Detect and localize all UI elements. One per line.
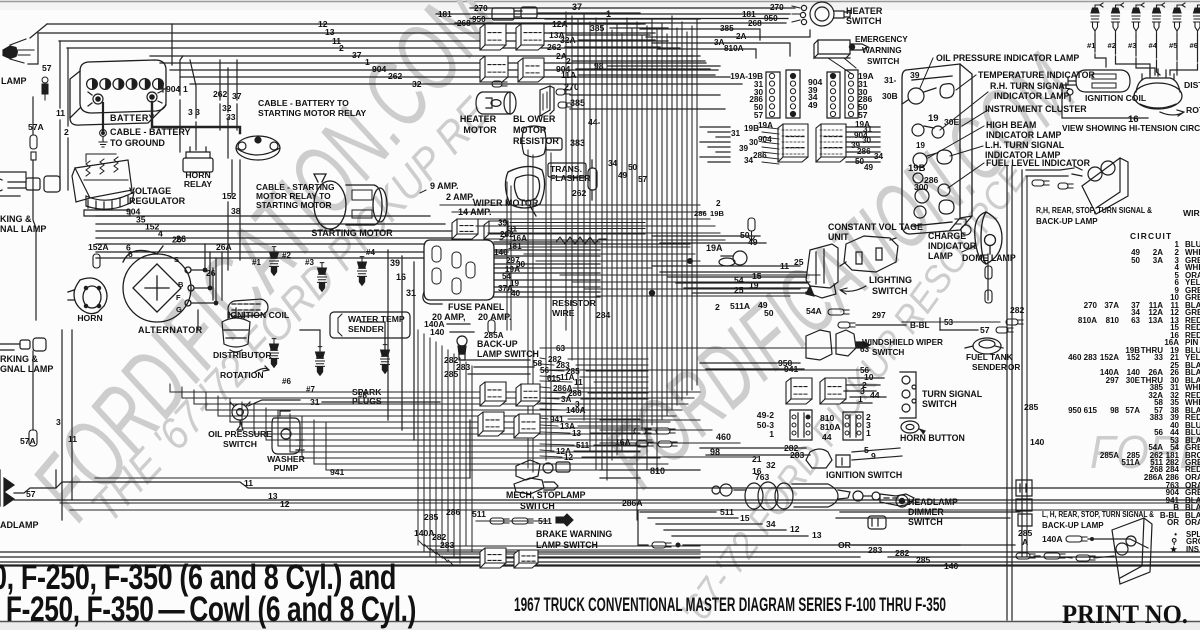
svg-text:CONSTANT VOL TAGE: CONSTANT VOL TAGE [828, 222, 923, 232]
spark plug #4 (engine row) [1153, 3, 1165, 35]
svg-text:HEADLAMP: HEADLAMP [908, 497, 958, 507]
svg-text:31-: 31- [884, 75, 897, 85]
starting motor [314, 174, 387, 229]
wire (top bus y=77) [180, 76, 730, 78]
spark plug #6 (left col) [270, 339, 279, 368]
wire (top bus y=41) [59, 40, 668, 42]
wire corner y464 [313, 420, 315, 464]
wire trunk x572 [571, 16, 573, 360]
svg-text:49: 49 [864, 163, 874, 172]
relay connector small top B [521, 7, 537, 18]
wire 6 from regulator [96, 251, 508, 253]
oil pressure switch [230, 402, 250, 430]
wire multipin r y132 [846, 131, 880, 133]
svg-text:#6: #6 [1190, 41, 1198, 50]
relay connector small top A [492, 8, 522, 20]
wire 181 fuse panel [494, 249, 600, 251]
svg-text:3A: 3A [561, 395, 572, 404]
svg-text:INDICATOR: INDICATOR [928, 241, 977, 251]
svg-text:DISTRIB: DISTRIB [1184, 80, 1200, 90]
svg-text:13A: 13A [1148, 316, 1163, 325]
svg-text:63: 63 [1131, 316, 1140, 325]
svg-text:BACK-UP LAMP: BACK-UP LAMP [1036, 217, 1098, 226]
wire 11A fanA cont [580, 376, 648, 378]
svg-text:A: A [1022, 537, 1028, 547]
svg-text:2A: 2A [736, 32, 747, 41]
svg-text:19: 19 [916, 141, 925, 150]
svg-text:286: 286 [446, 507, 461, 517]
svg-text:12: 12 [790, 524, 800, 534]
svg-text:SWITCH: SWITCH [922, 399, 957, 409]
spark plug #6 (engine row) [1194, 3, 1200, 35]
svg-text:511A: 511A [1121, 458, 1140, 467]
svg-text:IGNITION COIL: IGNITION COIL [228, 310, 289, 320]
svg-text:4: 4 [158, 229, 163, 239]
wire 56 [545, 369, 870, 371]
wire 286 fanA cont [588, 392, 648, 394]
svg-text:SWITCH: SWITCH [908, 517, 943, 527]
fan join to key cylinder [840, 511, 1020, 513]
svg-text:#7: #7 [306, 385, 315, 394]
wire multipin l y142 [700, 141, 730, 143]
wire 13A fanB cont [578, 425, 640, 427]
wire trunk x578 [577, 20, 579, 390]
wire lower-left y446 [278, 445, 646, 447]
wire 140A [447, 323, 470, 325]
R.H. rear lamp assembly [1072, 158, 1128, 214]
key plate pins y417 [792, 415, 796, 419]
wire 297 fuse panel [494, 263, 600, 265]
svg-text:VIEW SHOWING HI-TENSION CIRCUI: VIEW SHOWING HI-TENSION CIRCUIT FOR [1062, 123, 1200, 133]
svg-text:#3: #3 [1128, 41, 1136, 50]
svg-text:2: 2 [716, 199, 721, 208]
wire trunk x692 [691, 26, 693, 390]
svg-text:BRAKE WARNING: BRAKE WARNING [536, 529, 612, 539]
wire 286A route [638, 510, 648, 545]
plug lead wire #4 [1156, 35, 1158, 58]
wire lower mid x418 [417, 330, 419, 545]
wire mid y226 [476, 225, 715, 227]
wire multipin r y142 [846, 141, 880, 143]
wire lower mid x466 [465, 362, 467, 545]
wire (top bus y=24) [47, 23, 640, 25]
wire curve x424 [424, 544, 700, 550]
alternator [123, 246, 194, 322]
wire multipin r y162 [846, 161, 880, 163]
wire 268 hs [455, 22, 786, 24]
wire fuel drop [939, 318, 941, 330]
headlamp dimmer switch [896, 495, 908, 507]
svg-text:BACK-UP: BACK-UP [477, 339, 518, 349]
wire trunk x632 [631, 28, 633, 440]
svg-text:32A: 32A [560, 35, 576, 45]
svg-text:RELAY: RELAY [184, 179, 213, 189]
svg-text:37: 37 [572, 2, 582, 12]
battery terminal negative [88, 92, 103, 106]
pin circles row 3 colB [830, 96, 835, 101]
wire 16 coil [1062, 85, 1148, 118]
svg-text:152: 152 [1127, 353, 1141, 362]
multipin connector left [778, 124, 808, 162]
svg-text:MECH, STOPLAMP: MECH, STOPLAMP [506, 490, 586, 500]
wire extra mid b [600, 429, 712, 431]
wire trunk x622 [621, 34, 623, 450]
svg-text:16: 16 [396, 272, 406, 282]
svg-text:54A: 54A [806, 306, 822, 316]
svg-text:12A: 12A [552, 19, 568, 29]
svg-text:19A: 19A [706, 243, 723, 253]
svg-text:286A: 286A [622, 498, 643, 508]
junction dot trunk [649, 290, 655, 296]
wires lh row [1034, 555, 1040, 557]
svg-text:140: 140 [1030, 437, 1045, 447]
back-up lamp switch [457, 336, 467, 360]
wire multipin r y157 [846, 156, 880, 158]
svg-text:152: 152 [222, 191, 237, 201]
wire corner y392 [169, 384, 171, 392]
wire 30 fuse panel [494, 267, 600, 269]
svg-text:WINDSHIELD WIPER: WINDSHIELD WIPER [862, 338, 943, 347]
svg-text:810: 810 [1106, 316, 1120, 325]
svg-text:CABLE - BATTERY: CABLE - BATTERY [110, 127, 191, 137]
svg-text:FLASHER: FLASHER [550, 173, 591, 183]
wire 50 49 mid [652, 235, 760, 237]
wire corner y452 [289, 414, 291, 452]
wire mid y275 [560, 274, 820, 276]
svg-text:INDICATOR LAMP: INDICATOR LAMP [986, 130, 1062, 140]
wire multipin l2 y147 [762, 147, 779, 149]
connector below key [868, 516, 886, 529]
wire 98 mid [600, 456, 758, 458]
svg-text:140: 140 [430, 327, 445, 337]
pin circles row 2 colB [830, 89, 835, 94]
wire 57A lower vertical [32, 351, 34, 430]
svg-text:HORN BUTTON: HORN BUTTON [900, 433, 965, 443]
wire lower mid x472 [471, 366, 473, 551]
voltage regulator [72, 160, 134, 216]
svg-text:★: ★ [1170, 545, 1178, 554]
svg-text:286A: 286A [1144, 473, 1163, 482]
wire 181 hs [436, 13, 790, 15]
svg-text:904: 904 [372, 64, 387, 74]
svg-text:50: 50 [764, 308, 774, 318]
svg-text:NAL LAMP: NAL LAMP [0, 224, 46, 234]
cluster bottom sockets [914, 200, 954, 218]
top scan band [0, 0, 1200, 10]
wire trunk x672 [671, 16, 673, 410]
cluster lamp socket 3 [912, 124, 944, 138]
battery terminal positive [147, 86, 166, 103]
svg-text:1: 1 [365, 57, 370, 67]
spark plug #3 (engine row) [1132, 3, 1144, 35]
wire 3A fanA cont [581, 398, 648, 400]
wire lower-left y428 [242, 427, 664, 429]
wire 13 fanB cont [590, 432, 640, 434]
wire 1 top [545, 18, 700, 20]
fuse panel outline [423, 240, 494, 304]
pin circles row 5 colA [769, 111, 774, 116]
wire 810A hs [658, 49, 756, 58]
wire lower mid x424 [423, 334, 425, 551]
svg-text:181: 181 [742, 10, 756, 19]
wire (top bus y=48) [67, 47, 680, 49]
wire multipin l y162 [708, 161, 730, 163]
turn signal switch [900, 372, 916, 418]
svg-text:IGNITION SWITCH: IGNITION SWITCH [826, 470, 902, 480]
svg-text:REGULATOR: REGULATOR [129, 196, 186, 206]
wire curve x436 [436, 552, 700, 558]
lh inline connectors row [1016, 553, 1035, 559]
svg-text:34: 34 [744, 156, 754, 165]
wire trunk x602 [601, 26, 603, 470]
svg-text:57: 57 [858, 110, 868, 120]
wire 16A fuse panel [494, 241, 600, 243]
pin circles row 0 colB [830, 73, 835, 78]
svg-text:383: 383 [1150, 413, 1164, 422]
svg-text:140A: 140A [566, 406, 586, 415]
wire 35 from regulator [96, 223, 445, 225]
svg-text:283: 283 [868, 545, 883, 555]
wire trunk x687 [686, 32, 688, 395]
lh connectors column [1016, 480, 1032, 526]
svg-text:L, H, REAR, STOP, TURN SIGNAL: L, H, REAR, STOP, TURN SIGNAL & [1042, 510, 1154, 519]
svg-text:1967 TRUCK CONVENTIONAL MASTER: 1967 TRUCK CONVENTIONAL MASTER DIAGRAM S… [514, 595, 946, 616]
svg-text:HORN: HORN [77, 313, 102, 323]
svg-text:270: 270 [1084, 301, 1098, 310]
svg-text:LAMP SWITCH: LAMP SWITCH [477, 349, 539, 359]
svg-text:SWITCH: SWITCH [872, 286, 908, 296]
pin circles row 2 colA [769, 89, 774, 94]
spark plug #3 [318, 263, 327, 292]
wire multipin l2 y132 [762, 132, 779, 134]
svg-text:15: 15 [740, 513, 750, 523]
svg-text:OR: OR [1167, 518, 1179, 527]
wire long bottom bus 1 [0, 551, 1200, 553]
svg-text:HEATER: HEATER [846, 6, 883, 16]
wire corner y428 [241, 402, 243, 428]
wire 511 fanB cont [594, 444, 640, 446]
svg-text:1: 1 [866, 428, 871, 438]
key plate pins y433 [792, 431, 796, 435]
wire trunk x642 [641, 36, 643, 430]
cluster lamp socket 2 (temp) [940, 84, 954, 98]
wire steps to lighting switch [652, 265, 800, 267]
svg-text:57A: 57A [1125, 406, 1140, 415]
svg-text:STARTING MOTOR RELAY: STARTING MOTOR RELAY [258, 108, 366, 118]
battery cell cap 4 [126, 79, 137, 90]
wire 4 from regulator [96, 237, 468, 239]
svg-text:HEATER: HEATER [460, 114, 497, 124]
svg-text:57: 57 [42, 63, 52, 73]
svg-text:G: G [176, 305, 182, 314]
washer pump [272, 411, 304, 454]
wire multipin r y152 [846, 151, 880, 153]
bottom scan band [0, 622, 1200, 630]
wire 40 fuse panel [494, 296, 600, 298]
battery cell cap 3 [113, 79, 124, 90]
wire mid y268 [548, 267, 652, 269]
wire curve x448 [448, 560, 700, 566]
svg-text:33: 33 [1154, 353, 1163, 362]
svg-text:32: 32 [412, 79, 422, 89]
svg-text:SWITCH: SWITCH [867, 57, 899, 66]
svg-text:152A: 152A [1100, 353, 1119, 362]
wire corner y470 [325, 423, 327, 470]
svg-text:57: 57 [754, 111, 764, 120]
svg-text:#3: #3 [305, 258, 314, 267]
connector 285A mid [488, 320, 495, 333]
svg-text:460 283: 460 283 [1068, 353, 1097, 362]
wire oil sw [248, 400, 300, 406]
svg-text:63: 63 [556, 344, 566, 353]
wire 13A fanB [540, 425, 558, 426]
wire lower-left y410 [206, 409, 682, 411]
svg-text:57A: 57A [20, 436, 36, 446]
svg-text:F: F [176, 293, 181, 302]
svg-text:19B: 19B [710, 209, 724, 218]
battery cell cap 5 [139, 79, 150, 90]
spark plug #5 (engine row) [1173, 3, 1185, 35]
svg-text:ADLAMP: ADLAMP [0, 520, 39, 530]
wire mid y205 [440, 204, 700, 206]
wires bottom fan [640, 511, 716, 513]
svg-text:FUEL TANK: FUEL TANK [966, 352, 1013, 362]
svg-text:LAMP SWITCH: LAMP SWITCH [536, 540, 598, 550]
svg-text:DIMMER: DIMMER [908, 507, 944, 517]
wire long rear harness 2 (double) [14, 499, 1200, 501]
wire 31 [322, 401, 440, 403]
fuse 1 [432, 246, 441, 262]
wire 941 fanB cont [568, 418, 640, 420]
svg-text:STARTING MOTOR: STARTING MOTOR [256, 200, 332, 210]
wires plugs 7/8 [300, 330, 320, 352]
plug leads to distributor [1095, 54, 1106, 67]
svg-text:19B: 19B [908, 163, 926, 174]
svg-text:1: 1 [183, 84, 188, 94]
emergency warning switch [814, 40, 868, 74]
inline connector 54A [828, 309, 849, 315]
horn relay [183, 147, 213, 172]
wire mid y212 [452, 211, 705, 213]
svg-text:BL OWER: BL OWER [513, 114, 556, 124]
resistor wire zigzag [556, 237, 607, 244]
connector pair B (mid) [478, 412, 504, 436]
wire 19A fuse panel [494, 272, 600, 274]
cluster lamp socket 1 (oil) [902, 88, 936, 104]
svg-text:SWITCH: SWITCH [872, 348, 904, 357]
wire lower-left y440 [266, 439, 652, 441]
lighting switch assembly [806, 244, 838, 298]
wire corner y440 [265, 408, 267, 440]
svg-text:TEMPERATURE INDICATOR: TEMPERATURE INDICATOR [978, 70, 1095, 80]
spark plug #8 [381, 345, 390, 374]
wires 950/941 [700, 362, 800, 364]
svg-text:50: 50 [628, 163, 638, 172]
wire 283 bottom [0, 556, 860, 558]
svg-text:39: 39 [739, 144, 749, 153]
svg-text:30E: 30E [1126, 376, 1141, 385]
wire (top bus y=63) [160, 62, 706, 64]
wire trunk x667 [666, 34, 668, 415]
wire lower mid x442 [441, 346, 443, 545]
wire lower-left y464 [314, 463, 668, 465]
svg-text:3 3: 3 3 [188, 107, 200, 117]
spark plug #1 (engine row) [1091, 3, 1103, 35]
svg-text:11: 11 [244, 478, 253, 488]
wire mid y282 [572, 281, 810, 283]
instrument cluster outline [902, 64, 972, 234]
wire trunk x637 [636, 22, 638, 520]
svg-text:38: 38 [231, 206, 241, 216]
dome inline connectors vertical [985, 266, 992, 303]
wire curve x430 [430, 548, 700, 554]
wire 3 vertical [61, 330, 63, 520]
wire trunk x657 [656, 30, 658, 472]
wire 140 fuse panel [494, 255, 600, 257]
svg-text:5: 5 [864, 445, 869, 455]
svg-text:#6: #6 [282, 377, 291, 386]
svg-text:270: 270 [474, 4, 488, 13]
wire 270 [570, 94, 720, 96]
horn relay block (3d) [480, 24, 506, 50]
wire 63 [540, 347, 870, 349]
svg-text:39: 39 [910, 70, 920, 80]
wire mid y233 [488, 232, 720, 234]
wire 270 hs [470, 7, 795, 9]
fuse 4 [466, 262, 475, 278]
wire 283 fanA cont [576, 364, 648, 366]
horn button [901, 421, 925, 434]
ignition key connector plates [790, 410, 863, 440]
wire 511 fanB [540, 444, 574, 445]
fuse 5 [452, 278, 461, 294]
connector: left headlamp plug top [3, 39, 34, 63]
svg-text:50: 50 [1131, 256, 1140, 265]
svg-text:KING &: KING & [0, 214, 32, 224]
wire multipin l y137 [716, 136, 730, 138]
svg-text:30: 30 [749, 138, 759, 147]
leader arrow lighting [840, 286, 866, 294]
wire 285 fanA [540, 370, 564, 371]
svg-text:49: 49 [808, 100, 818, 110]
wire 460 mid [600, 442, 740, 444]
svg-text:282: 282 [1010, 305, 1025, 315]
svg-text:ORA: ORA [1185, 518, 1200, 527]
wire long bottom bus 2 (thick) [0, 561, 1200, 563]
svg-text:9: 9 [871, 451, 876, 461]
wire lower mid x448 [447, 350, 449, 551]
svg-text:19: 19 [928, 113, 939, 124]
svg-text:285: 285 [444, 369, 459, 379]
svg-text:ALTERNATOR: ALTERNATOR [138, 325, 203, 335]
ground clamp symbol [99, 130, 107, 147]
svg-text:511: 511 [576, 441, 590, 450]
svg-text:PUMP: PUMP [274, 463, 299, 473]
wire wiper drop pair [506, 182, 508, 330]
wire 511 inline row [476, 520, 548, 522]
wire 57 fuel [940, 329, 978, 331]
wire 385 hs2 [640, 29, 760, 40]
svg-text:941: 941 [330, 467, 345, 477]
svg-text:INDICATOR LAMP: INDICATOR LAMP [994, 91, 1070, 101]
wire 12A fanB [540, 450, 554, 451]
wire mid y254 [524, 253, 695, 255]
svg-text:297: 297 [872, 311, 886, 320]
spark plug style connector 511 [556, 514, 573, 526]
svg-text:810A: 810A [724, 44, 744, 53]
svg-text:16A: 16A [615, 437, 631, 447]
svg-text:56: 56 [1154, 428, 1163, 437]
